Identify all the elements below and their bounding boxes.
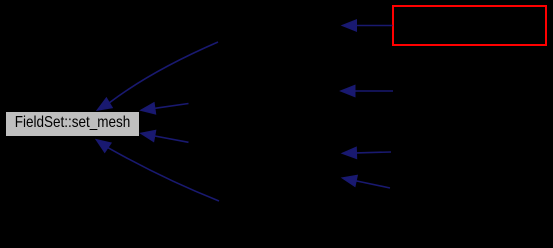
- edge short lower arrow into set_mesh right: [141, 130, 189, 142]
- edge lower horizontal arrow (right column): [342, 147, 391, 159]
- node FieldSet::set_mesh (grey filled box): [6, 112, 140, 137]
- edge middle horizontal arrow (right column): [341, 85, 394, 97]
- svg-text:FieldSet::set_mesh: FieldSet::set_mesh: [15, 114, 131, 131]
- node current (red outlined box, label hidden on black): [393, 6, 546, 45]
- edge diagonal arrow (bottom right): [342, 175, 390, 188]
- edge short upper arrow into set_mesh right: [141, 103, 189, 115]
- edge bottom curve into set_mesh bottom: [96, 140, 219, 202]
- edge from red node to hidden node (top right horizontal arrow): [342, 20, 393, 32]
- edge top curve into set_mesh top: [97, 42, 218, 110]
